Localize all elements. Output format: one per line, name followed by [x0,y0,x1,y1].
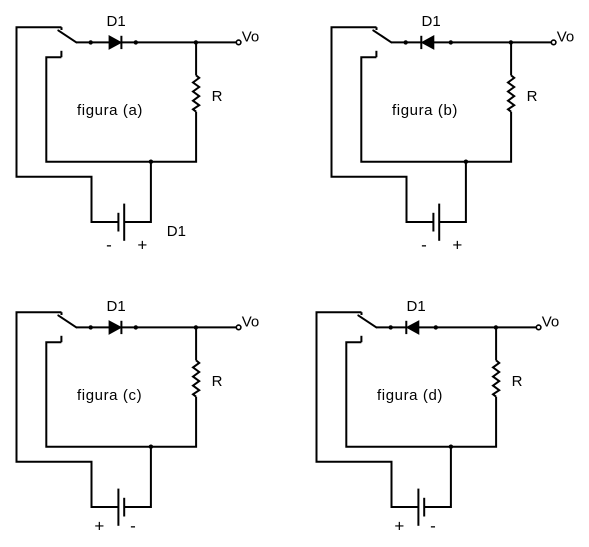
diode D1 (b) [421,36,434,49]
wire: a battery right terminal up to bottom rail junction [124,162,151,222]
svg-text:figura (d): figura (d) [377,387,443,404]
switch SW (b): blade (closed to top contact) [373,30,391,42]
junction dot: b battery tap on bottom rail [464,160,468,164]
figura (c) circuit [17,298,260,536]
figura (a) circuit [17,13,260,255]
junction dot: d output node at resistor R top [494,325,498,329]
svg-text:-: - [106,236,112,255]
switch SW (d): open throw contact stub [360,336,362,342]
junction dot: d battery tap on bottom rail [449,445,453,449]
wire: d switch blade to diode D1 cathode [376,326,406,328]
junction dot: a output node at resistor R top [194,40,198,44]
battery V1 (c): long and short plates [118,489,124,526]
wire: a switch blade to diode D1 anode [76,41,109,43]
junction dot: c output node at resistor R top [194,325,198,329]
wire: c diode D1 cathode to output node Vo [121,326,236,328]
junction dot: b output node at resistor R top [509,40,513,44]
junction dot: a right diode pin [134,40,138,44]
battery V1 (d): long and short plates [418,489,424,526]
svg-text:R: R [527,88,538,105]
svg-text:-: - [130,517,136,536]
wire: c output node down to resistor R top [195,327,197,360]
wire: a output node down to resistor R top [195,42,197,75]
svg-text:Vo: Vo [557,28,575,45]
svg-text:D1: D1 [407,298,426,315]
switch SW (b): top contact tick [376,27,378,30]
switch SW (d): blade (closed to top contact) [358,315,376,327]
svg-text:Vo: Vo [242,313,260,330]
node Vo (c): open terminal circle [236,325,241,330]
switch SW (a): open throw contact stub [60,51,62,57]
figura (b) circuit [332,13,575,255]
resistor R (c): zigzag body [193,360,199,396]
wire: b diode D1 anode to output node Vo [434,41,551,43]
battery V1 (b): long and short plates [433,204,439,241]
resistor R (b): zigzag body [508,75,514,111]
switch SW (d): top contact tick [361,312,363,315]
switch SW (b): open throw contact stub [375,51,377,57]
wire: d resistor R bottom along ground rail up to switch open throw [346,342,496,447]
wire: c battery right terminal up to bottom rail junction [124,447,151,507]
switch SW (c): top contact tick [61,312,63,315]
svg-text:D1: D1 [167,223,186,240]
battery V1 (a): long and short plates [118,204,124,241]
node Vo (b): open terminal circle [551,40,556,45]
svg-text:D1: D1 [107,13,126,30]
junction dot: a left diode pin [89,40,93,44]
wire: b resistor R bottom along ground rail up to switch open throw [361,57,511,162]
junction dot: b left diode pin [404,40,408,44]
wire: a resistor R bottom along ground rail up to switch open throw [46,57,196,162]
wire: c switch common to battery left terminal (left loop) [17,312,119,507]
junction dot: c left diode pin [89,325,93,329]
wire: a diode D1 cathode to output node Vo [121,41,236,43]
svg-text:+: + [452,236,462,255]
resistor R (d): zigzag body [493,360,499,396]
node Vo (a): open terminal circle [236,40,241,45]
diode D1 (c) [109,321,121,334]
wire: a switch common to battery left terminal (left loop) [17,27,119,222]
switch SW (c): blade (closed to top contact) [58,315,76,327]
svg-text:+: + [137,236,147,255]
junction dot: b right diode pin [449,40,453,44]
svg-text:Vo: Vo [542,313,560,330]
junction dot: c right diode pin [134,325,138,329]
diode D1 (a) [109,36,121,49]
svg-text:-: - [421,236,427,255]
junction dot: d left diode pin [389,325,393,329]
svg-text:-: - [430,517,436,536]
svg-text:figura (a): figura (a) [77,102,143,119]
svg-text:R: R [212,373,223,390]
wire: c resistor R bottom along ground rail up to switch open throw [46,342,196,447]
wire: b switch blade to diode D1 cathode [391,41,421,43]
svg-text:Vo: Vo [242,28,260,45]
figura (d) circuit [317,298,560,536]
svg-text:figura (b): figura (b) [392,102,458,119]
junction dot: d right diode pin [434,325,438,329]
wire: d diode D1 anode to output node Vo [419,326,536,328]
junction dot: c battery tap on bottom rail [149,445,153,449]
wire: c switch blade to diode D1 anode [76,326,109,328]
svg-text:D1: D1 [107,298,126,315]
wire: d output node down to resistor R top [495,327,497,360]
diode D1 (d) [406,321,419,334]
node Vo (d): open terminal circle [536,325,541,330]
resistor R (a): zigzag body [193,75,199,111]
svg-text:figura (c): figura (c) [77,387,142,404]
wire: b battery right terminal up to bottom rail junction [439,162,466,222]
svg-text:+: + [94,517,104,536]
svg-text:+: + [394,517,404,536]
junction dot: a battery tap on bottom rail [149,160,153,164]
svg-text:R: R [212,88,223,105]
switch SW (a): top contact tick [61,27,63,30]
svg-text:R: R [512,373,523,390]
switch SW (a): blade (closed to top contact) [58,30,76,42]
wire: b switch common to battery left terminal (left loop) [332,27,434,222]
switch SW (c): open throw contact stub [60,336,62,342]
svg-text:D1: D1 [422,13,441,30]
wire: b output node down to resistor R top [510,42,512,75]
wire: d battery right terminal up to bottom rail junction [424,447,451,507]
wire: d switch common to battery left terminal (left loop) [317,312,419,507]
